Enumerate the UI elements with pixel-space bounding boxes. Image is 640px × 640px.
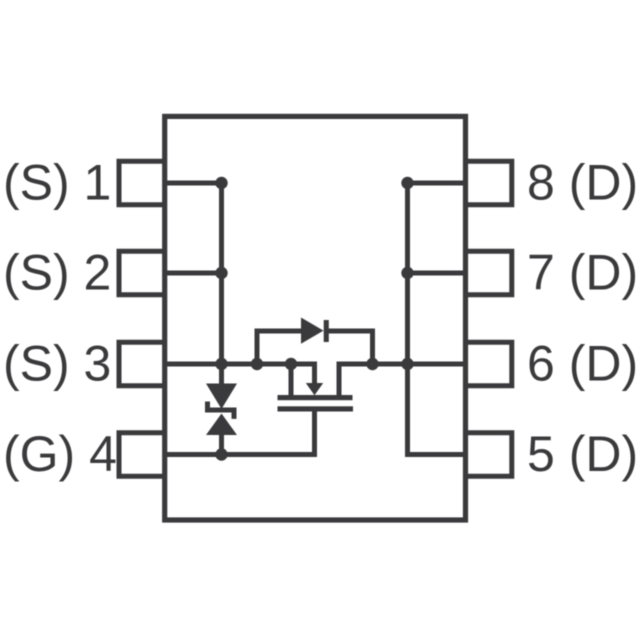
wire zener lower lead	[219, 435, 224, 455]
mosfet Q1 body arrow head	[306, 383, 323, 395]
wire pin6 row to mosfet drain	[339, 364, 466, 395]
svg-text:(S) 2: (S) 2	[3, 245, 111, 301]
wire body diode loop right	[370, 331, 375, 364]
svg-text:6 (D): 6 (D)	[527, 336, 638, 392]
node dot drain bus row6	[401, 358, 413, 370]
body diode D1 triangle	[301, 318, 324, 344]
node dot gate zener junction	[215, 448, 227, 460]
zener clamp bar	[208, 402, 235, 419]
pin 5 box	[466, 433, 512, 477]
svg-text:7 (D): 7 (D)	[527, 245, 638, 301]
wire source bus vertical	[219, 183, 224, 384]
wire pin7 to drain bus	[408, 271, 466, 276]
svg-text:5 (D): 5 (D)	[527, 426, 638, 482]
pin 6 box	[466, 342, 512, 386]
pin 1 box	[119, 161, 165, 205]
pin 7 box	[466, 251, 512, 295]
zener upper triangle	[206, 384, 237, 410]
node dot diode loop left	[251, 358, 263, 370]
wire gate lead from pin4	[165, 411, 315, 455]
wire pin1 to source bus	[165, 181, 222, 186]
mosfet Q1 gate bar	[278, 406, 354, 411]
svg-text:8 (D): 8 (D)	[527, 155, 638, 211]
node dot pin1 source bus	[215, 177, 227, 189]
wire body diode loop left	[255, 331, 260, 364]
body diode D1 cathode bar	[324, 320, 329, 342]
wire body diode loop top left	[255, 329, 302, 334]
wire pin2 to source bus	[165, 271, 222, 276]
wire pin3 row to mosfet arrow corner	[165, 364, 315, 385]
pin 2 box	[119, 251, 165, 295]
pin 8 box	[466, 161, 512, 205]
mosfet Q1 top channel bar	[278, 395, 353, 400]
wire pin8 to drain bus	[408, 181, 466, 186]
wire mosfet source drop	[289, 364, 294, 395]
node dot pin7 drain bus	[401, 267, 413, 279]
svg-text:(G) 4: (G) 4	[3, 426, 117, 482]
IC package outline	[165, 116, 466, 520]
node dot pin3 source bus	[215, 358, 227, 370]
pin 3 box	[119, 342, 165, 386]
svg-text:(S) 3: (S) 3	[3, 336, 111, 392]
svg-text:(S) 1: (S) 1	[3, 155, 111, 211]
node dot pin2 source bus	[215, 267, 227, 279]
pin 4 box	[119, 433, 165, 477]
wire drain bus vertical to pin5 row	[408, 183, 466, 455]
node dot pin8 drain bus	[401, 177, 413, 189]
node dot mosfet source	[285, 358, 297, 370]
zener lower triangle	[206, 414, 237, 436]
wire body diode loop top right	[327, 329, 376, 334]
node dot diode loop right	[366, 358, 378, 370]
